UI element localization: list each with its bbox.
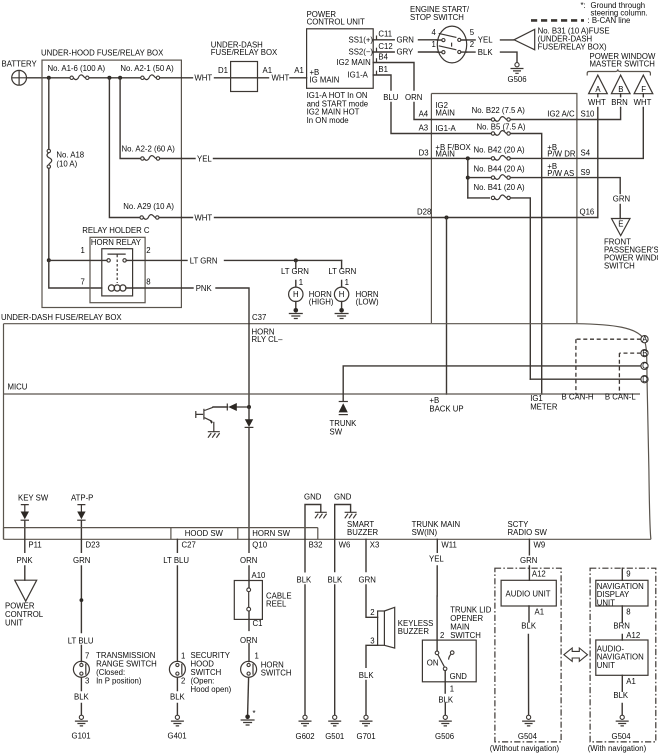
wire YEL to B31 fuse [467,39,514,41]
svg-text:BRN: BRN [611,98,627,107]
svg-text:GRN: GRN [520,556,537,565]
wire relay pin1 [49,259,107,261]
wire B41 row to circled D [468,198,531,379]
ground G701 [360,715,373,726]
svg-text:S10: S10 [581,110,596,119]
svg-text:SW(IN): SW(IN) [412,528,438,537]
svg-text:1: 1 [450,684,454,693]
svg-text:1: 1 [432,40,436,49]
ground G501 [328,715,341,726]
svg-text:SWITCH: SWITCH [261,668,292,677]
svg-text:C11: C11 [378,30,392,39]
svg-text:G504: G504 [612,732,632,741]
wire WHT to under-dash D28 [181,217,431,219]
junction node B42 feed [466,156,470,160]
svg-text:D28: D28 [417,208,431,217]
wire S9 row to E triangle [577,178,620,219]
svg-text:No. B42 (20 A): No. B42 (20 A) [474,146,526,155]
svg-text:No. B44 (20 A): No. B44 (20 A) [474,165,526,174]
svg-text:W11: W11 [441,541,456,550]
wire horn high drop [295,260,297,286]
circled node A [641,335,648,344]
keyless buzzer [378,607,395,648]
wire P11 PNK [24,539,26,580]
wire C to trunk sw [343,366,641,401]
svg-text:7: 7 [81,277,85,286]
wire through small box [231,77,258,79]
wire D row [530,378,641,380]
svg-text:G506: G506 [508,75,527,84]
wire Q16/D28 row through box [431,217,597,219]
fuse No.B44 [491,175,510,180]
svg-text:A3: A3 [419,124,429,133]
svg-text:: B-CAN line: : B-CAN line [588,16,631,25]
wire SHS to ground [176,678,178,716]
svg-text:HORN SW: HORN SW [252,529,290,538]
fuse No.A18 vertical [47,149,52,168]
svg-text:Q16: Q16 [580,208,595,217]
svg-text:1: 1 [81,246,85,255]
pin C12 [376,48,378,52]
wire relay pin2 to LT GRN [126,259,187,261]
svg-text:IG1-A: IG1-A [435,124,456,133]
under-dash fuse relay box (B fuses) [431,94,577,324]
series diode on Q10 line [245,407,254,539]
dashed box with navigation [590,568,656,742]
svg-text:No. B41 (20 A): No. B41 (20 A) [474,183,526,192]
svg-text:A12: A12 [626,631,640,640]
brace over triangles [587,69,650,75]
power control unit triangle [15,580,37,601]
svg-text:BLK: BLK [359,671,375,680]
svg-text:UNDER-HOOD FUSE/RELAY BOX: UNDER-HOOD FUSE/RELAY BOX [41,49,164,58]
diode to transistor (points left) [213,403,249,411]
svg-text:BLU: BLU [383,93,399,102]
svg-text:4: 4 [432,28,437,37]
svg-text:GND: GND [304,492,322,501]
svg-text:2: 2 [146,246,150,255]
svg-text:E: E [618,220,623,229]
svg-text:UNIT: UNIT [5,619,23,628]
fuse No.B5 [491,131,510,136]
wire C27 LT BLU [176,539,178,661]
svg-text:P/W AS: P/W AS [547,169,574,178]
B-CAN dashed wire A [576,339,641,394]
svg-text:No. A2-2 (60 A): No. A2-2 (60 A) [122,145,176,154]
wire +B BACK UP down [446,218,448,395]
svg-text:PNK: PNK [17,556,34,565]
svg-text:GRY: GRY [397,48,415,57]
cable reel internals [247,581,251,620]
horn high ground [295,302,297,309]
horn relay contact [107,254,126,283]
svg-text:A4: A4 [419,110,429,119]
svg-text:C1: C1 [253,619,263,628]
svg-text:IG2 A/C: IG2 A/C [547,110,575,119]
under-hood fuse/relay box [42,60,181,307]
svg-text:2: 2 [181,677,185,686]
svg-text:A12: A12 [532,570,546,579]
svg-text:LT GRN: LT GRN [281,267,309,276]
svg-text:BATTERY: BATTERY [2,60,38,69]
wire WHT to PCU [258,77,307,79]
power control unit box [307,29,374,89]
svg-text:ATP-P: ATP-P [71,494,93,503]
security hood switch [169,661,185,677]
wire YEL to under-dash D3 [181,158,431,160]
svg-text:C: C [642,362,648,371]
splice dot D23 [80,598,84,602]
svg-text:BACK UP: BACK UP [429,404,463,413]
battery symbol [12,70,27,85]
svg-text:(HIGH): (HIGH) [309,298,334,307]
svg-text:UNDER-DASH FUSE/RELAY BOX: UNDER-DASH FUSE/RELAY BOX [1,313,122,322]
wire ORN from B4 IG2 MAIN [373,63,431,120]
svg-text:1: 1 [181,652,185,661]
svg-text:3: 3 [85,677,89,686]
wire BLK to ground [467,52,517,62]
wire B42 row [431,157,576,159]
wire A18 to LT GRN node [48,168,50,260]
wire B22 row [431,119,576,121]
pin C11 [376,36,378,40]
svg-text:AUDIO UNIT: AUDIO UNIT [506,590,551,599]
svg-text:1: 1 [299,278,303,287]
svg-text:REEL: REEL [266,599,287,608]
svg-text:D3: D3 [419,149,429,158]
transmission range switch [73,661,89,677]
junction node B44 feed [466,176,470,180]
circled node C [641,362,648,371]
wire into nav display [621,568,623,580]
svg-text:ORN: ORN [405,93,422,102]
svg-text:G701: G701 [357,732,376,741]
engine start/stop switch [437,26,466,63]
wire C37 down to MICU [248,324,250,407]
svg-text:UNIT: UNIT [597,598,615,607]
wire SS1 GRN [373,39,438,41]
B-CAN dashed wire B [619,353,641,394]
svg-text:Q10: Q10 [252,541,267,550]
trunk lid opener main switch box [422,640,476,682]
svg-text:IG MAIN: IG MAIN [310,76,340,85]
wire W9 GRN [528,539,530,568]
ground G504 (nav) [616,715,629,726]
svg-text:W6: W6 [339,541,351,550]
svg-text:C27: C27 [182,541,196,550]
svg-text:2: 2 [470,40,474,49]
svg-text:D23: D23 [86,541,100,550]
svg-text:GRN: GRN [359,576,376,585]
junction node A2-2 feed [118,76,122,80]
svg-text:SS1(+): SS1(+) [349,35,374,44]
steering column ground (dot) [241,715,255,726]
wire B32 BLK [304,539,306,715]
svg-text:No. B5 (7.5 A): No. B5 (7.5 A) [477,122,526,131]
svg-text:No. A1-6 (100 A): No. A1-6 (100 A) [48,64,106,73]
transistor horn relay driver [196,407,214,431]
svg-text:In P position): In P position) [96,677,142,686]
wire F down to S4 row [577,108,643,159]
wire relay pin8 PNK [126,287,193,289]
svg-text:ORN: ORN [240,636,257,645]
circled node D [641,375,648,384]
svg-text:B4: B4 [378,52,388,61]
svg-text:BLK: BLK [521,621,537,630]
svg-text:G401: G401 [168,732,187,741]
svg-text:B1: B1 [378,65,388,74]
svg-text:2: 2 [440,631,444,640]
svg-text:D1: D1 [218,66,228,75]
svg-text:F: F [641,85,646,94]
svg-text:BLK: BLK [170,693,186,702]
fuse No.A2-2 [141,156,160,161]
svg-text:G506: G506 [435,732,454,741]
fuse No.B22 [491,117,510,122]
fuse No.A2-1 [141,75,160,80]
svg-text:WHT: WHT [634,98,652,107]
fuse No.B42 [491,155,510,160]
svg-text:W9: W9 [534,541,546,550]
svg-text:BLK: BLK [438,695,454,704]
horn relay coil [108,285,126,291]
wire B5 row to IG1 METER [431,134,541,395]
wire to G506 [444,682,446,716]
wire D23 GRN [80,539,82,661]
svg-text:YEL: YEL [429,555,444,564]
svg-text:(Without navigation): (Without navigation) [490,744,560,753]
svg-text:C12: C12 [378,42,392,51]
wire into audio unit [528,568,530,580]
junction node A29 feed [107,76,111,80]
wire nav to ground [621,675,623,715]
svg-text:S4: S4 [581,149,591,158]
transistor emitter ground [208,432,220,438]
wire down to relay coil row [49,260,102,288]
svg-text:No. B22 (7.5 A): No. B22 (7.5 A) [472,106,526,115]
pin B1 [376,71,378,75]
triangle E front passenger power window switch [612,219,631,236]
svg-text:1: 1 [255,652,259,661]
svg-text:BUZZER: BUZZER [347,528,379,537]
wire LT GRN to horn branch [225,259,342,261]
wire B44 row [468,177,577,179]
svg-text:No. A18: No. A18 [56,151,84,160]
svg-text:UNIT: UNIT [597,661,615,670]
junction node at battery feed [47,76,51,80]
svg-text:5: 5 [470,28,475,37]
svg-text:FUSE/RELAY BOX: FUSE/RELAY BOX [211,48,278,57]
svg-text:(With navigation): (With navigation) [588,744,647,753]
wire horn low drop [341,260,343,286]
wire horn switch to ground [248,678,249,715]
navigation display unit box [596,580,648,606]
svg-text:STOP SWITCH: STOP SWITCH [410,13,464,22]
svg-text:BLK: BLK [478,48,494,57]
ground G506 (trunk) [439,715,452,726]
MICU box top edge [4,393,641,395]
svg-text:WHT: WHT [272,74,290,83]
wire PNK to C37 column [216,288,249,324]
svg-text:LT GRN: LT GRN [190,256,218,265]
main bus wire y78 [49,77,182,79]
svg-text:GRN: GRN [613,195,630,204]
svg-text:3: 3 [370,637,374,646]
svg-text:No. A2-1 (50 A): No. A2-1 (50 A) [120,64,174,73]
junction node relay feed [47,258,51,262]
svg-text:H: H [339,290,345,299]
svg-text:RELAY HOLDER C: RELAY HOLDER C [82,226,150,235]
chassis ground symbol 2 [345,512,357,518]
svg-text:8: 8 [626,607,630,616]
horn relay box [102,249,133,296]
svg-text:G504: G504 [518,732,538,741]
wire BRN [621,606,623,640]
svg-text:In ON mode: In ON mode [307,116,349,125]
fuse No.A1-6 [70,75,89,80]
svg-text:MAIN: MAIN [435,109,455,118]
wire SS2 GRY [373,51,438,53]
svg-text:BLK: BLK [328,576,344,585]
wire W6 BLK [334,539,336,715]
junction node horn branch [294,258,298,262]
svg-text:P11: P11 [28,541,41,550]
svg-text:B CAN-H: B CAN-H [562,392,594,401]
svg-text:METER: METER [530,402,558,411]
svg-text:G101: G101 [72,732,91,741]
GND bent wire 1 (B32) [304,492,322,539]
cable reel box [234,581,262,620]
svg-text:G501: G501 [325,732,344,741]
svg-text:WHT: WHT [194,74,212,83]
svg-text:No. A29 (10 A): No. A29 (10 A) [123,202,174,211]
wire C1 ORN [248,619,250,661]
svg-text:GRN: GRN [397,36,414,45]
svg-text:B32: B32 [309,541,323,550]
trunk sw input symbol [339,402,348,415]
svg-text:RADIO SW: RADIO SW [508,528,548,537]
svg-text:C37: C37 [252,313,266,322]
svg-text:RLY CL–: RLY CL– [252,335,284,344]
wire BLU from B1 IG1-A [373,75,431,134]
ground G504 (audio) [522,715,535,726]
pin B4 [376,58,378,62]
svg-text:GND: GND [450,672,468,681]
svg-text:WHT: WHT [588,98,606,107]
svg-text:ON: ON [427,658,439,667]
ground G101 [75,715,88,726]
svg-text:CONTROL UNIT: CONTROL UNIT [307,18,365,27]
svg-text:D: D [642,375,648,384]
wire battery to under-hood box [27,77,49,79]
svg-text:(LOW): (LOW) [356,298,379,307]
wire buzzer pin3 to ground [366,645,378,715]
svg-text:A: A [595,85,601,94]
fuse No.B31 triangle [514,29,535,49]
svg-text:SWITCH: SWITCH [604,262,635,271]
wire W11 YEL [436,539,438,640]
svg-text:YEL: YEL [197,154,212,163]
svg-text:LT GRN: LT GRN [328,267,356,276]
junction node +B BACK UP tap [445,216,449,220]
wire audio to ground [527,606,530,715]
horn (low) [334,287,348,301]
wire A29 feed [109,78,181,218]
wire X3 GRN [366,539,378,617]
wire A down to Q16 row [597,108,599,218]
svg-text:MICU: MICU [8,383,28,392]
under-dash small fuse box (D1/A1) [231,62,258,92]
svg-text:(10 A): (10 A) [56,159,77,168]
svg-text:*: * [253,709,256,718]
svg-text:H: H [293,290,299,299]
svg-text:B: B [642,349,647,358]
svg-text:GND: GND [334,492,352,501]
ground G506 (engine switch) [511,63,524,74]
svg-text:BUZZER: BUZZER [398,627,430,636]
svg-text:X3: X3 [370,541,380,550]
master switch triangle A [589,75,608,97]
svg-text:LT BLU: LT BLU [163,556,189,565]
horn low ground [341,302,343,309]
svg-text:KEY SW: KEY SW [18,494,49,503]
chassis ground symbol 1 [315,512,327,518]
svg-text:GRN: GRN [73,556,90,565]
master switch triangle F [634,75,653,97]
MICU bottom pin strip [4,528,651,540]
wire Q10 ORN [248,539,250,580]
svg-text:SW: SW [330,427,343,436]
svg-text:YEL: YEL [478,36,493,45]
double arrow symbol [564,648,588,661]
horn (high) [289,287,303,301]
circled node B [641,349,648,358]
svg-text:A: A [642,335,648,344]
audio-navigation unit box [596,640,648,675]
svg-text:PNK: PNK [196,284,213,293]
relay holder C box [90,237,145,302]
svg-text:SWITCH: SWITCH [450,631,481,640]
under-dash big box outline with curved right edge [4,324,651,540]
svg-text:FUSE/RELAY BOX): FUSE/RELAY BOX) [538,43,607,52]
svg-text:*:: *: [581,1,586,10]
fuse No.A29 [140,215,159,220]
svg-text:2: 2 [370,608,374,617]
svg-text:WHT: WHT [194,213,212,222]
legend B-CAN line [531,19,584,22]
svg-text:IG2 MAIN: IG2 MAIN [337,58,371,67]
KEY SW output symbol [18,494,49,540]
svg-text:BLK: BLK [74,693,90,702]
svg-text:IG1-A: IG1-A [348,71,369,80]
trunk lid switch internals [435,640,454,682]
svg-text:HORN RELAY: HORN RELAY [91,238,142,247]
svg-text:Hood open): Hood open) [191,685,232,694]
svg-text:8: 8 [146,277,150,286]
svg-text:9: 9 [626,570,630,579]
svg-text:A1: A1 [294,66,304,75]
master switch triangle B [611,75,630,97]
wire WHT gap segments top row [181,77,230,79]
audio unit box [501,580,556,606]
svg-text:1: 1 [345,278,349,287]
svg-text:ORN: ORN [240,556,257,565]
svg-text:BLK: BLK [297,576,313,585]
ground G602 [299,715,312,726]
dashed box without navigation [495,568,561,742]
svg-text:G602: G602 [296,732,315,741]
svg-text:A10: A10 [252,571,267,580]
